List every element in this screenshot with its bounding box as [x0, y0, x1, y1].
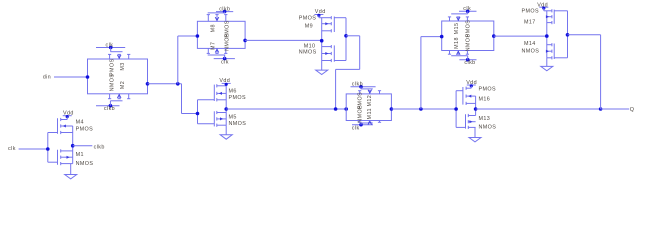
- svg-text:M15: M15: [454, 23, 460, 35]
- svg-text:PMOS: PMOS: [229, 95, 246, 101]
- svg-text:PMOS: PMOS: [299, 16, 316, 22]
- svg-text:Vdd: Vdd: [315, 9, 326, 15]
- svg-text:clkb: clkb: [94, 144, 105, 150]
- svg-text:Q: Q: [630, 107, 635, 113]
- svg-text:PMOS: PMOS: [522, 9, 539, 15]
- svg-text:clkb: clkb: [464, 60, 475, 66]
- svg-text:NMOS: NMOS: [522, 49, 540, 55]
- svg-text:M14: M14: [524, 41, 536, 47]
- svg-text:PMOS: PMOS: [109, 59, 115, 76]
- svg-text:M2: M2: [120, 81, 126, 89]
- svg-text:NMOS: NMOS: [225, 33, 231, 51]
- svg-text:PMOS: PMOS: [479, 87, 496, 93]
- svg-text:clk: clk: [221, 60, 229, 66]
- svg-text:NMOS: NMOS: [358, 105, 364, 123]
- svg-text:NMOS: NMOS: [465, 34, 471, 52]
- svg-text:M11: M11: [367, 108, 373, 119]
- svg-text:NMOS: NMOS: [299, 50, 317, 56]
- svg-text:clk: clk: [352, 125, 360, 131]
- svg-text:M13: M13: [479, 116, 491, 122]
- svg-text:clk: clk: [8, 146, 16, 152]
- svg-text:M18: M18: [454, 37, 460, 49]
- svg-text:M6: M6: [229, 88, 237, 94]
- svg-text:NMOS: NMOS: [76, 161, 94, 167]
- svg-text:clkb: clkb: [352, 82, 363, 88]
- svg-text:M1: M1: [76, 152, 84, 158]
- svg-text:M8: M8: [210, 24, 216, 32]
- svg-text:Vdd: Vdd: [63, 110, 74, 116]
- svg-text:M17: M17: [524, 20, 536, 26]
- svg-text:NMOS: NMOS: [229, 121, 247, 127]
- svg-text:M4: M4: [76, 120, 84, 126]
- svg-text:Vdd: Vdd: [219, 78, 230, 84]
- svg-text:M3: M3: [120, 62, 126, 70]
- svg-text:M5: M5: [229, 114, 237, 120]
- svg-text:M10: M10: [304, 43, 316, 49]
- svg-text:clkb: clkb: [104, 106, 115, 112]
- svg-text:NMOS: NMOS: [479, 125, 497, 131]
- svg-text:M16: M16: [479, 97, 491, 103]
- svg-text:PMOS: PMOS: [76, 126, 93, 132]
- svg-text:clk: clk: [106, 42, 114, 48]
- svg-text:Vdd: Vdd: [466, 80, 477, 86]
- svg-text:M12: M12: [367, 95, 373, 107]
- svg-text:NMOS: NMOS: [109, 74, 115, 92]
- svg-text:clk: clk: [463, 6, 471, 12]
- svg-text:M9: M9: [305, 23, 313, 29]
- svg-text:din: din: [43, 74, 51, 80]
- svg-text:M7: M7: [210, 42, 216, 50]
- svg-text:clkb: clkb: [219, 7, 230, 13]
